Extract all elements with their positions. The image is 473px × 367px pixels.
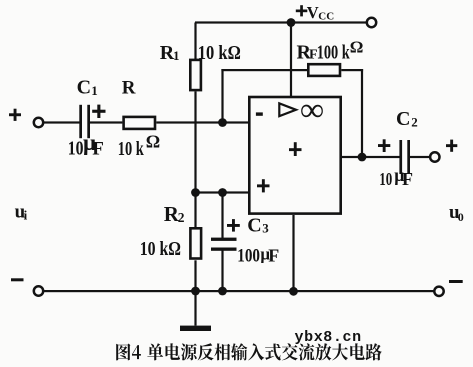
input terminal circle — [34, 118, 43, 127]
RF label and value — [297, 38, 364, 64]
resistor RF — [308, 64, 340, 76]
C1 label — [77, 77, 98, 99]
C1 polarity + — [92, 105, 105, 118]
bottom left terminal circle — [34, 286, 43, 295]
svg-text:10: 10 — [379, 169, 392, 189]
op-amp + center label — [289, 142, 302, 156]
capacitor C1 — [79, 105, 90, 138]
C2 label — [396, 108, 418, 130]
+VCC label — [296, 3, 334, 22]
R value 10 kOhm — [118, 131, 160, 160]
svg-text:10: 10 — [68, 138, 84, 160]
resistor R1 — [190, 60, 201, 90]
svg-text:100: 100 — [237, 246, 260, 267]
node dot C3 top — [218, 188, 227, 197]
svg-text:C: C — [77, 77, 91, 99]
op-amp triangle symbol — [279, 103, 296, 116]
svg-text:10 kΩ: 10 kΩ — [140, 238, 181, 260]
wire noninverting input — [196, 191, 249, 193]
svg-text:0: 0 — [458, 210, 464, 224]
ground bar — [180, 326, 211, 331]
C3 polarity + — [227, 219, 240, 232]
svg-text:1: 1 — [173, 48, 180, 63]
node dot divider — [191, 188, 200, 197]
svg-text:i: i — [24, 207, 28, 222]
svg-text:∞: ∞ — [300, 92, 324, 128]
svg-text:R: R — [122, 78, 136, 99]
node dot rail R2 — [191, 287, 200, 296]
wire VCC drop to op-amp — [290, 23, 292, 97]
VCC junction dot — [287, 18, 296, 27]
top VCC rail wire — [195, 21, 367, 23]
wire C2 to output terminal — [410, 156, 430, 158]
svg-text:10 kΩ: 10 kΩ — [198, 42, 241, 64]
wire R2 bottom to rail — [194, 260, 196, 291]
wire C1 to R — [90, 121, 123, 123]
output terminal circle — [430, 152, 439, 161]
C3 label — [247, 214, 269, 236]
R2 label — [164, 202, 185, 226]
op-amp inverting - sign — [256, 112, 263, 115]
wire RF riser — [221, 69, 223, 123]
uo label — [449, 202, 464, 224]
wire RF right — [341, 69, 363, 71]
node dot rail C3 — [218, 287, 227, 296]
input + polarity label — [9, 109, 21, 121]
figure caption — [116, 343, 382, 360]
svg-text:C: C — [247, 214, 261, 236]
minus label bottom right — [449, 280, 463, 283]
svg-text:ybx8.cn: ybx8.cn — [295, 329, 362, 346]
C1 value 10uF — [68, 130, 104, 160]
svg-text:F: F — [92, 139, 104, 160]
wire C3 bottom to rail — [221, 251, 223, 292]
output + polarity label — [446, 140, 457, 152]
svg-text:C: C — [396, 108, 410, 130]
ui label — [15, 201, 28, 222]
svg-text:Ω: Ω — [146, 131, 160, 151]
op-amp + lower left (noninverting) label — [257, 179, 270, 192]
bottom right terminal circle — [434, 287, 443, 296]
svg-text:1: 1 — [91, 83, 98, 98]
svg-text:10 k: 10 k — [118, 138, 145, 160]
resistor R — [124, 117, 155, 129]
minus label bottom left — [11, 278, 24, 281]
ground stem wire — [194, 291, 196, 326]
VCC terminal circle — [367, 18, 376, 27]
C3 value 100uF — [237, 245, 279, 267]
wire C3 branch down — [221, 193, 223, 239]
capacitor C2 — [399, 140, 410, 174]
svg-text:2: 2 — [178, 210, 185, 225]
capacitor C3 — [211, 238, 237, 251]
op-amp U1 box — [249, 97, 340, 214]
C2 value 10uF — [379, 165, 413, 189]
svg-text:3: 3 — [262, 221, 269, 236]
svg-text:100 k: 100 k — [317, 42, 351, 64]
wire op-amp ground pin — [292, 215, 294, 291]
R1 label — [160, 42, 180, 64]
svg-text:Ω: Ω — [350, 38, 364, 57]
wire input to C1 — [44, 121, 81, 123]
svg-text:V: V — [307, 3, 319, 22]
C2 polarity + — [378, 139, 390, 152]
resistor R2 — [190, 228, 201, 258]
wire op-amp output — [342, 156, 400, 158]
wire R to op-amp inverting input — [156, 121, 248, 123]
svg-text:2: 2 — [411, 115, 418, 130]
node dot rail op-amp — [289, 287, 298, 296]
node dot output — [358, 153, 367, 162]
svg-text:F: F — [268, 246, 279, 266]
svg-text:F: F — [402, 169, 413, 189]
wire R1 branch from VCC rail — [194, 23, 196, 60]
wire RF drop to output — [361, 69, 363, 157]
node dot inverting input — [218, 118, 227, 127]
svg-text:CC: CC — [318, 10, 334, 22]
wire R1 bottom down through node to R2 — [194, 92, 196, 228]
bottom rail wire — [44, 290, 435, 292]
wire to RF left — [221, 69, 307, 71]
